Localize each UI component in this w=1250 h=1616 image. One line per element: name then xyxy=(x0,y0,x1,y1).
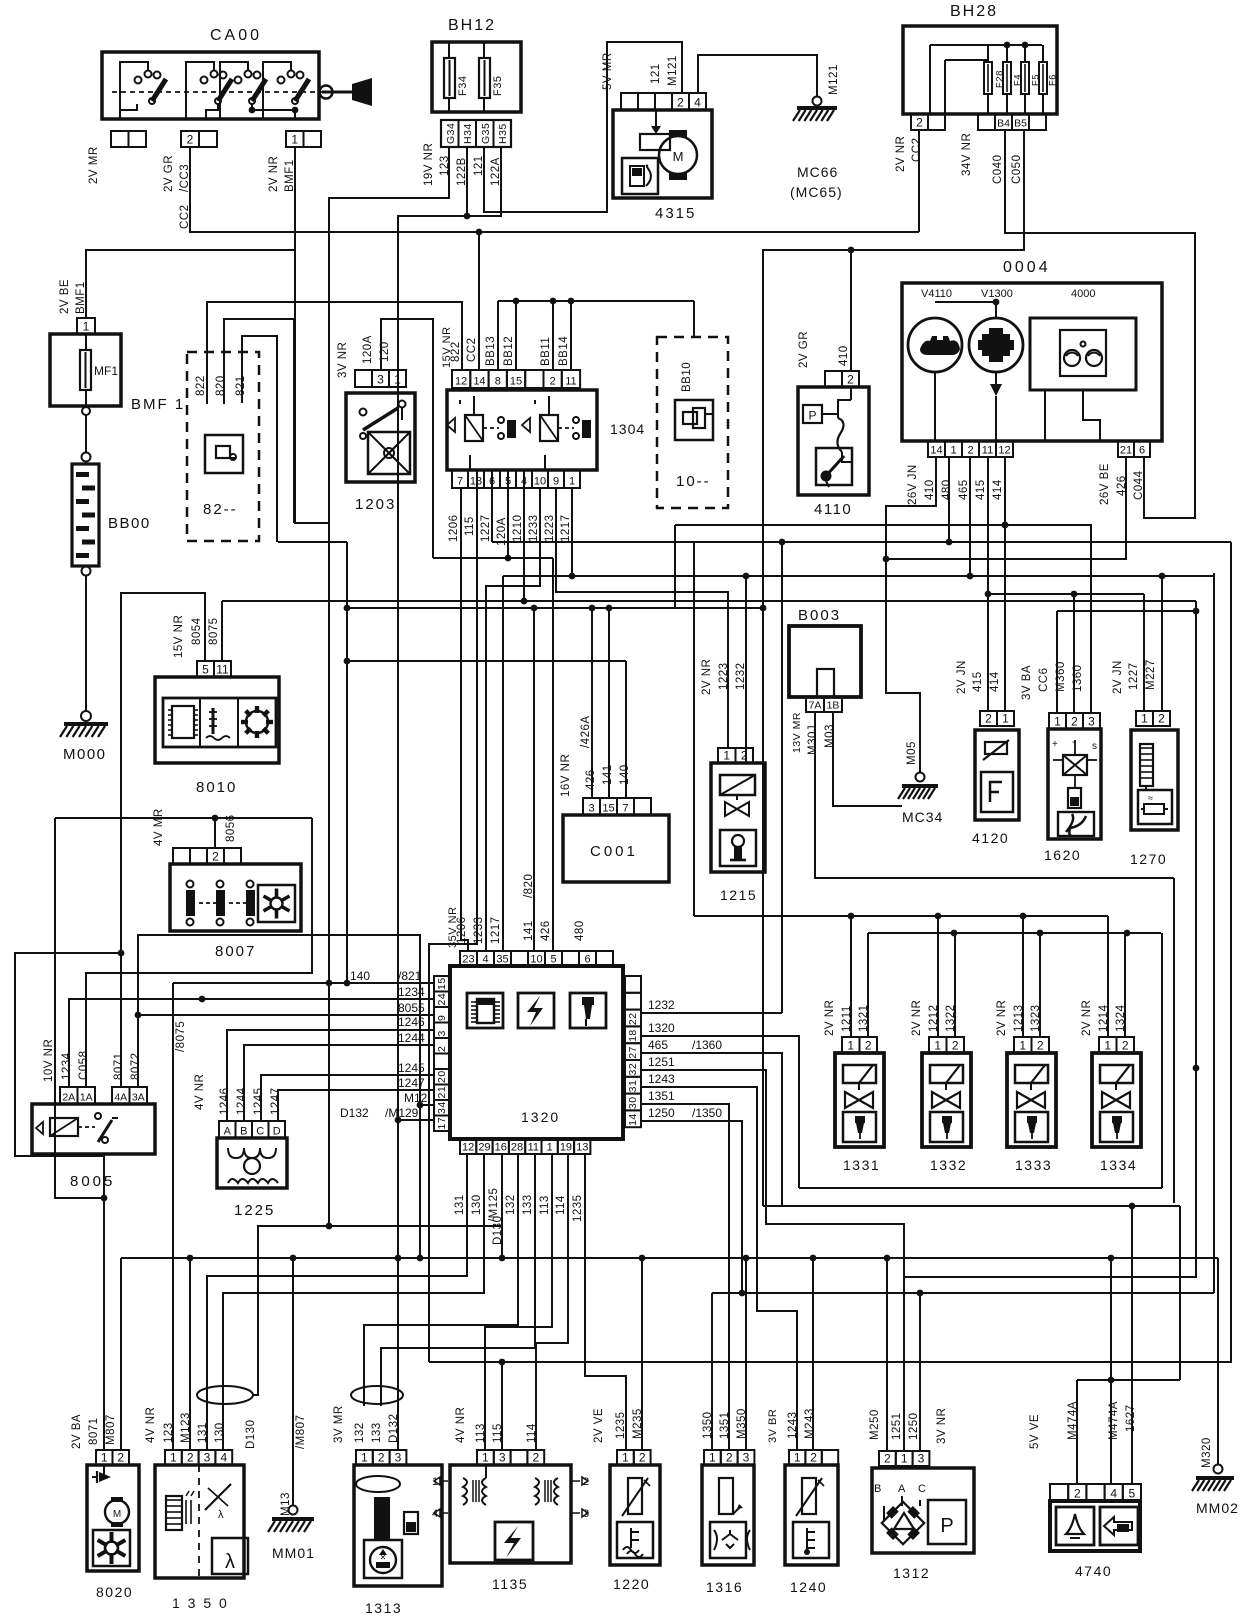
svg-text:MM02: MM02 xyxy=(1196,1500,1239,1516)
wire 121 to 4315 xyxy=(484,42,682,212)
svg-text:114: 114 xyxy=(555,1195,567,1215)
labels 2V NR 1223 1232 xyxy=(701,659,747,695)
0004 pin row left xyxy=(928,441,1013,457)
wire 1206 to 1320 pin23 xyxy=(461,488,468,951)
1215 internals xyxy=(720,775,756,866)
svg-text:1B: 1B xyxy=(827,700,840,712)
svg-text:1244: 1244 xyxy=(236,1087,248,1115)
svg-text:28: 28 xyxy=(511,1142,523,1154)
svg-text:D130: D130 xyxy=(492,1216,504,1246)
svg-text:4: 4 xyxy=(1110,1487,1117,1501)
svg-text:2V BE: 2V BE xyxy=(59,279,71,314)
svg-text:426: 426 xyxy=(540,920,552,941)
svg-text:1313: 1313 xyxy=(365,1600,402,1616)
relay 8005 box xyxy=(32,1104,155,1190)
svg-text:1240: 1240 xyxy=(790,1579,827,1595)
svg-text:1: 1 xyxy=(723,749,730,763)
svg-text:P: P xyxy=(808,409,816,423)
labels M474A M474A 1627 xyxy=(1067,1401,1137,1440)
svg-text:1217: 1217 xyxy=(490,916,502,944)
svg-text:14: 14 xyxy=(627,1113,639,1126)
8020 pin row xyxy=(96,1450,129,1465)
svg-text:7: 7 xyxy=(622,803,628,815)
BH28 internals xyxy=(930,42,1058,114)
label 3V MR xyxy=(333,1405,345,1443)
wire 1351 row xyxy=(641,1104,729,1450)
fuse F35 xyxy=(479,42,504,112)
svg-text:F6: F6 xyxy=(1047,74,1058,86)
svg-text:1334: 1334 xyxy=(1100,1157,1137,1173)
wire x782 long xyxy=(779,539,786,1013)
labels 121 M121 xyxy=(650,55,679,86)
svg-text:3V BA: 3V BA xyxy=(1021,665,1033,700)
svg-text:4V MR: 4V MR xyxy=(153,808,165,846)
svg-text:2: 2 xyxy=(639,1451,646,1465)
svg-text:415: 415 xyxy=(975,479,987,500)
wire 426A junction xyxy=(0,0,1,1)
svg-text:MM01: MM01 xyxy=(272,1545,315,1561)
wire 415 from 0004 to 4120 xyxy=(985,457,992,711)
svg-text:2V NR: 2V NR xyxy=(701,659,713,695)
ignition switch CA00 box xyxy=(102,27,319,119)
1220 internals xyxy=(617,1478,653,1558)
svg-text:1251: 1251 xyxy=(891,1412,903,1440)
svg-text:465: 465 xyxy=(958,479,970,500)
svg-text:7A: 7A xyxy=(809,700,822,712)
labels below 1304 xyxy=(448,514,572,546)
svg-text:1320: 1320 xyxy=(521,1109,560,1125)
svg-text:C: C xyxy=(256,1126,264,1138)
8020 internals xyxy=(92,1465,130,1566)
svg-text:8072: 8072 xyxy=(130,1052,142,1080)
connector C001 box xyxy=(563,815,669,882)
svg-text:3A: 3A xyxy=(132,1092,145,1104)
svg-text:1206: 1206 xyxy=(448,514,460,542)
svg-text:+: + xyxy=(1052,739,1058,750)
svg-text:(MC65): (MC65) xyxy=(790,184,843,200)
C001 pin row xyxy=(583,798,651,815)
svg-text:2V NR: 2V NR xyxy=(824,1000,836,1036)
idle valve 1620 box xyxy=(1044,729,1101,863)
svg-text:8: 8 xyxy=(495,376,501,388)
svg-text:8020: 8020 xyxy=(96,1584,133,1600)
labels 132 133 D132 xyxy=(354,1414,400,1444)
label CC2 xyxy=(179,204,191,229)
svg-text:9: 9 xyxy=(553,476,559,488)
label 10V NR xyxy=(43,1039,55,1082)
svg-text:1360: 1360 xyxy=(1072,664,1084,692)
bus wire y573 xyxy=(503,573,1214,951)
svg-text:F35: F35 xyxy=(492,76,504,96)
label 2V GR top xyxy=(798,331,810,368)
svg-text:3V MR: 3V MR xyxy=(333,1405,345,1443)
label 4V NR 1135 xyxy=(455,1407,467,1443)
labels 1350 1351 M350 xyxy=(702,1408,748,1439)
wire D130 shield xyxy=(197,1226,502,1404)
1320 icons xyxy=(467,993,606,1028)
wire M807 8020 xyxy=(120,1258,122,1450)
svg-text:H34: H34 xyxy=(462,123,474,144)
label M05 xyxy=(906,741,918,765)
label /426A xyxy=(580,715,592,748)
switch CA00 internals xyxy=(112,62,322,119)
svg-text:1217: 1217 xyxy=(560,514,572,542)
svg-text:12: 12 xyxy=(998,445,1010,457)
svg-text:426: 426 xyxy=(585,769,597,790)
svg-text:0004: 0004 xyxy=(1003,259,1051,276)
svg-text:H35: H35 xyxy=(497,123,509,144)
svg-text:D130: D130 xyxy=(245,1420,257,1450)
svg-text:1247: 1247 xyxy=(398,1076,425,1090)
wire CC2 from CA00 pin2 xyxy=(190,147,919,232)
wire 821-140 row xyxy=(173,983,434,1450)
wire 140 from C001 to 1320 xyxy=(344,542,626,986)
svg-text:16: 16 xyxy=(495,1142,507,1154)
svg-text:F4: F4 xyxy=(1012,74,1023,86)
svg-text:CC2: CC2 xyxy=(911,137,923,162)
svg-text:1: 1 xyxy=(934,1039,941,1053)
connector B003 box xyxy=(789,607,861,697)
svg-text:1: 1 xyxy=(847,1039,854,1053)
svg-text:2V JN: 2V JN xyxy=(956,660,968,694)
svg-text:/M129: /M129 xyxy=(385,1106,419,1120)
svg-text:λ: λ xyxy=(218,1509,224,1521)
air temp sensor 1316 box xyxy=(702,1465,754,1595)
wire 8055 row xyxy=(135,1012,434,1019)
wires BB13 BB12 BB11 BB14 xyxy=(498,298,694,370)
svg-text:BB10: BB10 xyxy=(681,362,693,392)
svg-text:V4110: V4110 xyxy=(921,288,952,300)
svg-text:2: 2 xyxy=(532,1451,539,1465)
svg-text:1223: 1223 xyxy=(544,514,556,542)
1312 pin row xyxy=(879,1451,929,1466)
0004 pin row right xyxy=(1118,441,1150,457)
label /820 xyxy=(523,874,535,898)
svg-text:M235: M235 xyxy=(632,1408,644,1439)
label D130 bottom xyxy=(245,1420,257,1450)
svg-text:131: 131 xyxy=(197,1422,209,1443)
svg-text:14: 14 xyxy=(930,445,942,457)
bus wire y542 xyxy=(278,541,1231,543)
svg-text:1: 1 xyxy=(170,1451,177,1465)
labels 426 141 140 xyxy=(585,764,631,790)
wire y576 line xyxy=(967,457,1162,711)
svg-text:2V NR: 2V NR xyxy=(268,156,280,192)
svg-text:CA00: CA00 xyxy=(210,27,262,44)
label 8056 xyxy=(225,814,237,842)
svg-text:21: 21 xyxy=(1120,445,1132,457)
svg-text:/1360: /1360 xyxy=(692,1038,722,1052)
svg-text:M05: M05 xyxy=(906,741,918,765)
8005 pin row xyxy=(60,1087,147,1104)
ground MM01 xyxy=(268,1519,315,1561)
svg-text:A: A xyxy=(898,1483,906,1495)
wire y1206 line xyxy=(763,1206,1180,1380)
wire MF1 to battery xyxy=(82,407,91,462)
svg-text:/426A: /426A xyxy=(580,715,592,748)
svg-text:113: 113 xyxy=(539,1195,551,1215)
svg-text:M: M xyxy=(673,149,684,164)
control unit 8010 box xyxy=(155,677,279,796)
svg-text:≈: ≈ xyxy=(1148,793,1153,803)
svg-text:F28: F28 xyxy=(994,70,1005,88)
wire 820 to 1203 pin3 xyxy=(224,319,294,523)
svg-text:✕: ✕ xyxy=(380,1553,387,1562)
wire 1210 path xyxy=(222,470,1196,604)
label M121 right xyxy=(828,64,840,95)
wire M243 xyxy=(812,1258,814,1450)
svg-text:BB12: BB12 xyxy=(503,336,515,366)
label 2V BE BMF1 xyxy=(59,279,87,314)
injector 1331 xyxy=(824,916,884,1173)
4120 internals xyxy=(981,711,1013,812)
svg-text:114: 114 xyxy=(526,1423,538,1443)
svg-text:C001: C001 xyxy=(590,843,638,860)
svg-text:4110: 4110 xyxy=(814,501,852,518)
labels 13V MR M30J M03 xyxy=(791,712,836,755)
svg-text:1245: 1245 xyxy=(398,1061,425,1075)
1316 pin row xyxy=(704,1450,754,1465)
svg-text:11: 11 xyxy=(528,1142,539,1154)
wire M30J from B003 xyxy=(815,712,1174,878)
svg-text:M123: M123 xyxy=(180,1412,192,1443)
svg-text:8055: 8055 xyxy=(398,1001,425,1015)
svg-text:465: 465 xyxy=(648,1038,668,1052)
svg-text:12: 12 xyxy=(455,376,467,388)
svg-text:30: 30 xyxy=(627,1096,639,1109)
coolant sensor 4120 box xyxy=(972,730,1019,846)
svg-text:480: 480 xyxy=(941,479,953,500)
svg-text:11: 11 xyxy=(565,376,576,388)
stub 1215 pin2 xyxy=(745,748,747,763)
svg-text:822: 822 xyxy=(195,375,207,396)
ECU 1320 box xyxy=(450,966,623,1139)
svg-text:5V VE: 5V VE xyxy=(1029,1414,1041,1449)
wire 120A path xyxy=(381,319,433,558)
svg-text:1333: 1333 xyxy=(1015,1157,1052,1173)
injector 1334 xyxy=(1081,916,1141,1173)
svg-text:C040: C040 xyxy=(992,155,1004,185)
svg-text:1: 1 xyxy=(950,445,956,457)
wire 822 up xyxy=(207,302,462,404)
svg-text:1227: 1227 xyxy=(1128,662,1140,690)
svg-text:2: 2 xyxy=(117,1451,124,1465)
labels 410 480 465 415 414 xyxy=(924,479,1004,500)
wire 1247 xyxy=(278,1090,434,1121)
svg-text:3: 3 xyxy=(204,1451,211,1465)
icon connector BB10 xyxy=(675,400,713,440)
wire M123 xyxy=(189,1258,191,1450)
label M320 xyxy=(1201,1437,1213,1468)
gauge V4110 xyxy=(908,288,962,441)
dashed connector box 82-- xyxy=(187,352,259,541)
svg-text:11: 11 xyxy=(982,445,993,457)
svg-text:820: 820 xyxy=(215,375,227,396)
svg-text:1234: 1234 xyxy=(61,1052,73,1080)
svg-text:9: 9 xyxy=(436,1015,448,1021)
svg-text:20: 20 xyxy=(436,1070,448,1083)
1304 top pin row xyxy=(452,370,580,388)
label BMF1 xyxy=(131,396,185,413)
gauge block 4000 xyxy=(1030,288,1136,441)
svg-text:15: 15 xyxy=(510,376,522,388)
svg-text:1233: 1233 xyxy=(473,916,485,944)
svg-text:M350: M350 xyxy=(736,1408,748,1439)
svg-text:M250: M250 xyxy=(869,1409,881,1440)
svg-text:2V GR: 2V GR xyxy=(798,331,810,368)
svg-text:1227: 1227 xyxy=(480,514,492,542)
svg-text:1203: 1203 xyxy=(355,496,396,513)
wire 1627 xyxy=(1129,1203,1136,1484)
svg-text:24: 24 xyxy=(436,993,448,1006)
fuse box BH28 xyxy=(903,3,1057,114)
svg-text:1244: 1244 xyxy=(398,1031,425,1045)
BH28 pin 2 cell xyxy=(911,114,945,130)
svg-text:3: 3 xyxy=(1088,715,1095,729)
svg-text:1351: 1351 xyxy=(719,1411,731,1439)
svg-text:1225: 1225 xyxy=(234,1202,275,1219)
fuel heater 1270 box xyxy=(1130,730,1178,867)
canister valve 1215 box xyxy=(711,763,765,903)
wire 1250 1350 row xyxy=(641,1121,1214,1451)
1320 bottom pins xyxy=(460,1139,590,1154)
svg-text:8071: 8071 xyxy=(88,1417,100,1445)
labels below 1320 xyxy=(454,1188,584,1222)
wire 410 from 0004 xyxy=(886,457,936,782)
svg-text:2: 2 xyxy=(1074,1487,1081,1501)
svg-text:2V BA: 2V BA xyxy=(71,1414,83,1449)
4120 pin row xyxy=(980,711,1014,726)
label 2V JN 1270 xyxy=(1112,660,1124,694)
wire 132 xyxy=(364,1154,518,1406)
wire 1245 xyxy=(261,1075,434,1121)
svg-text:/821: /821 xyxy=(398,969,422,983)
svg-text:MF1: MF1 xyxy=(94,364,118,378)
svg-text:32: 32 xyxy=(627,1063,639,1076)
svg-text:G35: G35 xyxy=(480,123,492,144)
svg-text:1246: 1246 xyxy=(219,1087,231,1115)
injector 1333 xyxy=(996,916,1056,1173)
svg-text:2: 2 xyxy=(1158,712,1165,726)
connector pin 1 below CA00 xyxy=(286,131,321,147)
connector pin 2 below CA00 xyxy=(181,131,217,147)
fuel temp sensor 1240 box xyxy=(785,1465,838,1595)
svg-text:1 3 5 0: 1 3 5 0 xyxy=(172,1595,229,1611)
svg-text:1: 1 xyxy=(1141,712,1148,726)
label 3V NR 1312 xyxy=(936,1408,948,1444)
svg-text:2V NR: 2V NR xyxy=(996,1000,1008,1036)
wire CC2 down from BH28 xyxy=(918,130,920,232)
svg-text:13: 13 xyxy=(576,1142,588,1154)
svg-text:1332: 1332 xyxy=(930,1157,967,1173)
wire y594 line xyxy=(988,591,1144,713)
svg-text:A: A xyxy=(224,1126,232,1138)
label 26V BE 426 xyxy=(1099,463,1128,505)
svg-text:2: 2 xyxy=(884,1452,891,1466)
label 2V NR BMF1 xyxy=(268,156,296,192)
1620 pin row xyxy=(1049,713,1100,729)
svg-text:4120: 4120 xyxy=(972,830,1009,846)
1225 pin row xyxy=(219,1121,285,1138)
1320 left pins xyxy=(434,976,450,1131)
1320 right pins xyxy=(625,976,641,1127)
coolant sensor 1220 box xyxy=(610,1465,660,1592)
labels 8071 M807 xyxy=(88,1414,117,1445)
svg-text:BB14: BB14 xyxy=(558,336,570,366)
svg-text:29: 29 xyxy=(478,1142,490,1154)
svg-text:2: 2 xyxy=(1037,1039,1044,1053)
label 2V BA xyxy=(71,1414,83,1449)
svg-text:10--: 10-- xyxy=(676,473,711,490)
svg-text:16V NR: 16V NR xyxy=(560,754,572,797)
label D130 mid xyxy=(492,1216,504,1246)
dashed box BB10 xyxy=(657,337,728,508)
svg-text:M320: M320 xyxy=(1201,1437,1213,1468)
wire 1320-B003 vertical xyxy=(0,0,1,1)
label 3V BA xyxy=(1021,665,1033,700)
svg-text:1270: 1270 xyxy=(1130,851,1167,867)
wire 1232 to 1320 xyxy=(641,573,782,1013)
svg-text:2: 2 xyxy=(436,1046,448,1052)
svg-text:132: 132 xyxy=(354,1422,366,1443)
svg-text:4V NR: 4V NR xyxy=(455,1407,467,1443)
wire M350 xyxy=(745,1258,747,1450)
svg-text:2: 2 xyxy=(967,445,973,457)
wire D132 shield xyxy=(351,1386,403,1404)
svg-text:2V JN: 2V JN xyxy=(1112,660,1124,694)
svg-text:414: 414 xyxy=(989,671,1001,692)
svg-text:1: 1 xyxy=(394,373,401,387)
fuse F34 xyxy=(444,42,469,112)
svg-text:M30J: M30J xyxy=(807,725,819,755)
label 34V NR xyxy=(961,133,973,176)
svg-text:G34: G34 xyxy=(445,123,457,144)
labels 8054 8075 real xyxy=(191,617,220,645)
wire M125 xyxy=(499,1154,506,1261)
labels C040 C050 xyxy=(992,155,1023,185)
label 16V NR xyxy=(560,754,572,797)
wire 2V MR stub xyxy=(0,0,1,1)
1320 top pins xyxy=(460,951,613,966)
svg-text:18: 18 xyxy=(627,1029,639,1042)
svg-text:B5: B5 xyxy=(1014,118,1027,130)
svg-text:1250: 1250 xyxy=(648,1106,675,1120)
1203 pin row xyxy=(355,370,406,387)
1304 internals xyxy=(447,396,591,470)
svg-text:BMF 1: BMF 1 xyxy=(131,396,185,413)
svg-text:1627: 1627 xyxy=(1125,1404,1137,1432)
wires into 82-- box xyxy=(0,0,1,1)
svg-text:3: 3 xyxy=(395,1451,402,1465)
svg-text:1: 1 xyxy=(1054,715,1061,729)
wire C058 row xyxy=(86,815,312,1087)
svg-text:2: 2 xyxy=(952,1039,959,1053)
svg-text:D: D xyxy=(273,1126,281,1138)
4110 internals xyxy=(803,387,852,487)
svg-text:8010: 8010 xyxy=(196,779,237,796)
labels 8071 8072 xyxy=(113,1052,142,1080)
svg-text:35: 35 xyxy=(496,954,508,966)
svg-text:2: 2 xyxy=(677,96,684,110)
wire D132 M129 row xyxy=(395,1117,434,1124)
gauge V1300 xyxy=(935,288,1023,441)
1240 pin row xyxy=(789,1450,838,1465)
svg-text:3: 3 xyxy=(436,1030,448,1036)
wire CC2 to 1304 xyxy=(476,229,483,370)
1225 internals xyxy=(228,1148,278,1183)
svg-text:6: 6 xyxy=(584,954,590,966)
label 3V NR xyxy=(337,342,349,378)
